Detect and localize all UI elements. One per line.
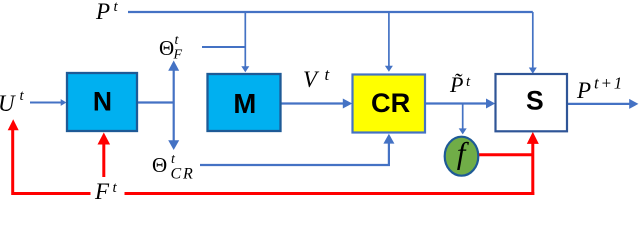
svg-text:V: V <box>303 67 320 92</box>
wire red Ft bottom bus <box>13 192 535 195</box>
svg-text:t: t <box>20 88 25 104</box>
svg-text:P: P <box>576 78 591 103</box>
wire Theta_CR to CR bottom <box>200 134 394 165</box>
wire red f to S bottom feedback <box>479 132 539 195</box>
svg-text:P̃: P̃ <box>449 72 463 97</box>
wire branch down to f <box>459 104 467 135</box>
svg-text:t+1: t+1 <box>594 74 624 93</box>
svg-text:F: F <box>173 48 183 63</box>
label Ft white backing <box>91 177 125 202</box>
block N <box>67 73 137 131</box>
block S <box>496 74 568 131</box>
svg-text:t: t <box>175 33 180 48</box>
svg-text:Θ: Θ <box>152 153 167 177</box>
wire Pt branch arrow into S <box>529 68 537 74</box>
wire Pt top bus <box>128 12 533 68</box>
block M <box>208 74 281 131</box>
svg-text:S: S <box>526 86 544 116</box>
svg-text:U: U <box>0 91 16 116</box>
svg-text:t: t <box>114 0 119 15</box>
svg-text:CR: CR <box>171 166 195 183</box>
wire Pt branch into M <box>241 12 249 72</box>
wire N output vertical up to Theta_F and down to Theta_CR <box>137 61 179 151</box>
svg-text:t: t <box>466 74 471 90</box>
wire CR to S arrow <box>425 99 495 109</box>
wire red feedback up to Ut node <box>8 119 19 195</box>
svg-text:F: F <box>94 179 110 202</box>
svg-text:CR: CR <box>371 87 411 118</box>
svg-text:Θ: Θ <box>159 36 174 60</box>
block CR <box>353 75 426 133</box>
wire S output arrow Pt+1 <box>568 99 638 109</box>
wire Pt branch into CR <box>385 12 393 72</box>
svg-text:N: N <box>93 87 112 117</box>
svg-text:t: t <box>325 65 331 84</box>
wire Theta_F to M branch <box>202 46 245 48</box>
wire M to CR arrow Vt <box>280 99 352 109</box>
svg-text:P: P <box>95 0 110 24</box>
svg-text:M: M <box>233 88 256 119</box>
wire Ut input arrow into N <box>30 99 66 106</box>
wire red arrow into N bottom <box>98 133 111 194</box>
node f ellipse <box>445 136 479 176</box>
